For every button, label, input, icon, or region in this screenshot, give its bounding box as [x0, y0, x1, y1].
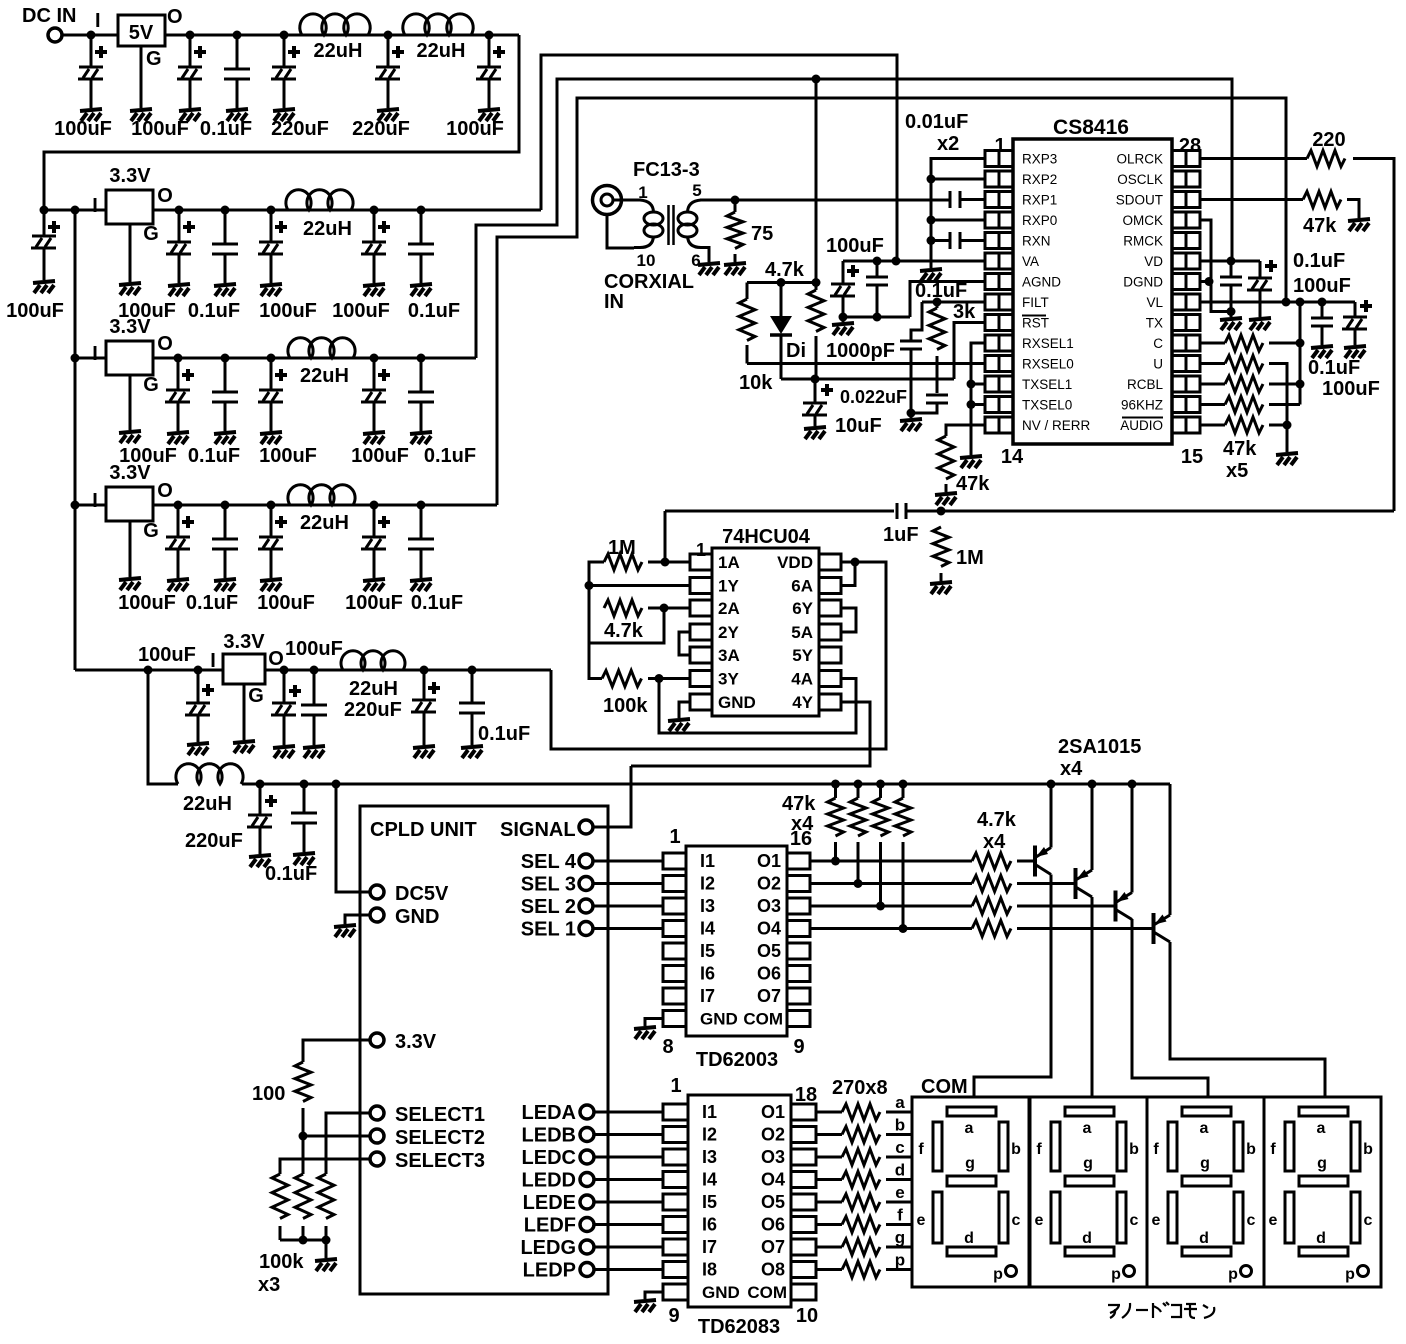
wire TXSEL0 stub: [971, 403, 985, 406]
wire DGND stub: [1200, 280, 1209, 283]
coaxial jack J1: [593, 186, 622, 215]
capacitor C37 0.022uF: [936, 356, 939, 393]
7-segment display DS1 body: [912, 1097, 1029, 1287]
ground (C18 100uF): [167, 579, 189, 591]
pin I1 of TD62003: [663, 853, 686, 869]
resistor 47k-2: [850, 798, 866, 836]
node: [1296, 380, 1305, 389]
segment a: [1182, 1107, 1231, 1116]
segment d: [1299, 1247, 1348, 1256]
pin GND of 74HCU04: [690, 694, 712, 710]
pin I1 of TD62083: [663, 1104, 688, 1120]
node: [811, 375, 820, 384]
svg-text:100uF: 100uF: [259, 300, 317, 322]
svg-text:6: 6: [691, 251, 700, 270]
svg-text:f: f: [1270, 1141, 1276, 1158]
pin VL of CS8416: [1172, 294, 1186, 310]
svg-text:RXP1: RXP1: [1022, 193, 1057, 208]
ground lead of VR5: [243, 684, 246, 740]
svg-text:c: c: [1364, 1212, 1373, 1229]
ground (C21 100uF): [363, 579, 385, 591]
terminal SELECT2: [370, 1129, 384, 1143]
svg-text:COM: COM: [743, 1010, 783, 1029]
svg-text:100: 100: [252, 1083, 285, 1105]
node at 5V input: [87, 31, 96, 40]
node: [71, 354, 80, 363]
wire NV/RERR to 47k: [946, 425, 985, 436]
svg-text:0.022uF: 0.022uF: [840, 387, 907, 407]
diode Di: [780, 283, 783, 317]
wire 3.3V#4 input rail: [75, 669, 223, 672]
decimal point circle: [1006, 1266, 1017, 1277]
IC U2 74HCU04 body: [712, 548, 819, 716]
svg-text:0.1uF: 0.1uF: [188, 445, 240, 467]
segment f: [1051, 1122, 1060, 1171]
ground (RX bus): [920, 269, 942, 281]
svg-text:22uH: 22uH: [349, 678, 398, 700]
svg-text:47k: 47k: [1303, 215, 1337, 237]
wire SELECT3 to 100k: [280, 1159, 370, 1174]
resistor R 3k: [936, 302, 939, 308]
svg-text:100uF: 100uF: [1293, 275, 1351, 297]
pin OLRCK of CS8416: [1172, 151, 1186, 167]
wire rail to CPLD DC5V pin: [336, 784, 369, 892]
svg-text:5A: 5A: [791, 623, 813, 642]
svg-text:0.1uF: 0.1uF: [1293, 250, 1345, 272]
overline for AUDIO: [1122, 417, 1163, 419]
wire base of Q1: [1017, 860, 1034, 863]
node: [420, 666, 429, 675]
resistor R 1M pulldown: [933, 527, 949, 566]
pin I7 of TD62003: [663, 988, 686, 1004]
svg-text:d: d: [964, 1230, 974, 1247]
pin O3 of TD62003: [787, 898, 810, 914]
capacitor C39 100uF (VD electrolytic): [1259, 261, 1262, 278]
svg-text:100uF: 100uF: [351, 445, 409, 467]
wire 5V rail feed down to 3.3V regulators: [44, 35, 519, 210]
svg-text:O: O: [157, 333, 173, 355]
capacitor C41 100uF (VL electrolytic): [1354, 302, 1357, 317]
svg-text:I6: I6: [702, 1215, 717, 1235]
node: [299, 1236, 308, 1245]
wire GND stub of 74HCU04: [679, 702, 690, 718]
ground (C26): [413, 746, 435, 758]
node: [876, 902, 885, 911]
wire TXSEL1 stub: [971, 383, 985, 386]
svg-text:SIGNAL: SIGNAL: [500, 819, 576, 841]
capacitor C9 0.1uF (ceramic): [224, 210, 227, 244]
ground (C10 100uF): [260, 284, 282, 296]
ground (C2 100uF): [179, 109, 201, 121]
svg-text:O8: O8: [761, 1260, 785, 1280]
svg-text:10k: 10k: [739, 372, 773, 394]
svg-text:d: d: [1082, 1230, 1092, 1247]
svg-text:I: I: [92, 343, 98, 365]
node: [221, 501, 230, 510]
terminal LEDB: [580, 1128, 594, 1142]
svg-text:O2: O2: [757, 874, 781, 894]
wire emitter rail corner to Q4: [1169, 784, 1172, 915]
wire Q1 collector to display1 COM: [974, 875, 1051, 1098]
pin O6 of TD62083: [791, 1217, 816, 1233]
ground (C20 100uF): [260, 579, 282, 591]
svg-text:x4: x4: [983, 831, 1006, 853]
IC U5 TD62083 body: [688, 1095, 791, 1307]
svg-text:0.1uF: 0.1uF: [188, 300, 240, 322]
pin 2A of 74HCU04: [690, 600, 712, 616]
svg-text:100k: 100k: [603, 695, 648, 717]
wire pull-down bus to ground: [1286, 425, 1289, 452]
wire 5V output rail: [165, 34, 519, 37]
terminal SEL 1: [579, 922, 593, 936]
capacitor C10 100uF (electrolytic): [270, 210, 273, 242]
svg-text:I6: I6: [700, 964, 715, 984]
pin RXP3 of CS8416: [985, 151, 999, 167]
resistor R 47k (SDOUT): [1303, 192, 1341, 208]
node: [186, 31, 195, 40]
terminal DC IN jack: [48, 28, 62, 42]
pin RXSEL1 of CS8416: [985, 335, 999, 351]
capacitor C29 0.1uF (ceramic): [303, 784, 306, 813]
segment e: [933, 1192, 942, 1243]
IC U4 TD62003 body: [686, 846, 787, 1036]
svg-text:I: I: [92, 195, 98, 217]
resistor R 47k pull (3): [879, 784, 882, 798]
segment c: [1117, 1192, 1126, 1243]
ground (TD62083): [634, 1300, 656, 1312]
node: [267, 206, 276, 215]
pin O7 of TD62003: [787, 988, 810, 1004]
wire VA decoupling: [843, 260, 985, 263]
node: [370, 501, 379, 510]
pin O6 of TD62003: [787, 966, 810, 982]
wire from DC input filter down to bottom rail: [148, 670, 178, 784]
wire 100k left leg: [589, 643, 602, 679]
segment f: [1168, 1122, 1177, 1171]
node: [310, 666, 319, 675]
svg-text:0.1uF: 0.1uF: [411, 592, 463, 614]
svg-text:g: g: [1317, 1155, 1327, 1172]
wire bottom supply rail: [242, 783, 1170, 786]
wire 3.3V#4 output rail: [265, 669, 551, 672]
svg-text:I8: I8: [702, 1260, 717, 1280]
svg-text:5V: 5V: [129, 22, 154, 44]
node: [899, 924, 908, 933]
node: [233, 31, 242, 40]
resistor R 3k: [929, 308, 945, 350]
wire Q3 collector to display3 COM: [1132, 919, 1208, 1097]
node: [417, 206, 426, 215]
svg-text:e: e: [895, 1183, 904, 1202]
svg-text:1000pF: 1000pF: [826, 340, 895, 362]
segment e: [1051, 1192, 1060, 1243]
resistor R 1M: [604, 554, 642, 570]
terminal SELECT1: [370, 1106, 384, 1120]
ground (C4 220uF): [273, 109, 295, 121]
pin 4A of 74HCU04: [819, 671, 841, 687]
wire 2Y-3A bracket: [679, 632, 690, 655]
svg-text:NV / RERR: NV / RERR: [1022, 418, 1091, 433]
ground (75): [724, 263, 746, 275]
svg-text:100uF: 100uF: [826, 235, 884, 257]
svg-text:x2: x2: [937, 133, 959, 155]
svg-text:RXN: RXN: [1022, 234, 1051, 249]
7-segment display DS4 body: [1264, 1097, 1381, 1287]
transistor Q3 2SA1015: [1114, 891, 1118, 922]
svg-text:1: 1: [670, 1075, 681, 1097]
node: [1296, 298, 1305, 307]
pin I2 of TD62003: [663, 876, 686, 892]
svg-text:4.7k: 4.7k: [765, 259, 805, 281]
svg-text:GND: GND: [718, 693, 756, 712]
pin TX of CS8416: [1172, 315, 1186, 331]
segment a: [1299, 1107, 1348, 1116]
svg-text:RXP0: RXP0: [1022, 213, 1057, 228]
svg-text:O3: O3: [757, 896, 781, 916]
svg-text:47k: 47k: [1223, 438, 1257, 460]
ground (C23): [187, 743, 209, 755]
svg-text:3.3V: 3.3V: [109, 462, 151, 484]
svg-text:O1: O1: [761, 1102, 785, 1122]
wire SELECT2: [303, 1135, 370, 1138]
node: [174, 501, 183, 510]
terminal SELECT3: [370, 1152, 384, 1166]
ground (C9 0.1uF): [214, 284, 236, 296]
svg-text:g: g: [965, 1155, 975, 1172]
wire 6Y-5A bracket: [841, 608, 856, 632]
wire 3Y: [648, 677, 690, 680]
resistor R 47k (AUDIO): [1225, 417, 1263, 433]
node: [221, 206, 230, 215]
node: [851, 558, 860, 567]
node: [655, 674, 664, 683]
node: [777, 278, 786, 287]
svg-text:100uF: 100uF: [54, 118, 112, 140]
svg-text:SDOUT: SDOUT: [1116, 193, 1163, 208]
node: [267, 354, 276, 363]
pin NV / RERR of CS8416: [985, 417, 999, 433]
segment b: [1117, 1122, 1126, 1171]
svg-text:I7: I7: [700, 986, 715, 1006]
pin O1 of TD62003: [787, 853, 810, 869]
svg-text:75: 75: [751, 223, 773, 245]
transformer T1 secondary winding: [688, 200, 702, 212]
pin O2 of TD62003: [787, 876, 810, 892]
svg-text:a: a: [965, 1120, 974, 1137]
node: [731, 196, 740, 205]
svg-text:O2: O2: [761, 1125, 785, 1145]
ground (C15 100uF): [260, 432, 282, 444]
ground lead of regulator VR4 3.3V: [129, 521, 132, 577]
node: [927, 216, 936, 225]
node: [194, 666, 203, 675]
wire 3.3V#2 output rail: [153, 357, 476, 360]
svg-text:LEDE: LEDE: [523, 1192, 576, 1214]
svg-text:O4: O4: [757, 919, 781, 939]
resistor R 270 (b): [842, 1127, 880, 1143]
resistor R 270 (d): [842, 1172, 880, 1188]
svg-text:AUDIO: AUDIO: [1120, 418, 1163, 433]
svg-text:O1: O1: [757, 851, 781, 871]
wire jack shield to primary pin 10: [607, 216, 634, 248]
segment c: [999, 1192, 1008, 1243]
wire O5 to segment e: [816, 1201, 842, 1204]
svg-text:LEDP: LEDP: [523, 1260, 576, 1282]
capacitor C6 100uF (electrolytic): [488, 35, 491, 67]
resistor R 100k: [602, 671, 641, 687]
node: [256, 780, 265, 789]
wire 3.3V#3 input: [75, 504, 106, 507]
svg-text:IN: IN: [604, 291, 624, 313]
svg-text:FILT: FILT: [1022, 295, 1049, 310]
svg-text:I2: I2: [700, 874, 715, 894]
decimal point circle: [1358, 1266, 1369, 1277]
terminal GND: [370, 908, 384, 922]
transformer T1 primary winding: [640, 200, 654, 212]
node: [907, 409, 916, 418]
svg-text:100uF: 100uF: [332, 300, 390, 322]
wire LEDB to TD62083 I2: [594, 1133, 663, 1136]
svg-text:TXSEL1: TXSEL1: [1022, 377, 1072, 392]
svg-text:96KHZ: 96KHZ: [1121, 398, 1163, 413]
transformer T1 core: [667, 205, 670, 245]
svg-text:22uH: 22uH: [300, 365, 349, 387]
pin DGND of CS8416: [1172, 274, 1186, 290]
pin I4 of TD62083: [663, 1172, 688, 1188]
wire O3 line: [810, 905, 972, 908]
wire LEDD to TD62083 I4: [594, 1178, 663, 1181]
pin 5Y of 74HCU04: [819, 647, 841, 663]
svg-text:22uH: 22uH: [314, 40, 363, 62]
svg-text:74HCU04: 74HCU04: [722, 526, 811, 548]
node: [1318, 298, 1327, 307]
pin GND of TD62083: [663, 1284, 688, 1300]
svg-text:I1: I1: [702, 1102, 717, 1122]
capacitor C8 100uF (electrolytic): [178, 210, 181, 242]
svg-text:TD62003: TD62003: [696, 1049, 778, 1071]
svg-text:3k: 3k: [953, 301, 976, 323]
svg-text:5Y: 5Y: [792, 646, 813, 665]
svg-text:a: a: [895, 1093, 905, 1112]
ground (TD62003): [634, 1027, 656, 1039]
capacitor C5 220uF (electrolytic): [387, 35, 390, 67]
ground lead of 5V regulator: [140, 46, 143, 108]
svg-text:f: f: [918, 1141, 924, 1158]
ground (C12 0.1uF): [410, 284, 432, 296]
ground (SDOUT 47k): [1348, 219, 1370, 231]
pin I5 of TD62083: [663, 1194, 688, 1210]
svg-text:4Y: 4Y: [792, 693, 813, 712]
wire resistor to SELECT2 node: [302, 1108, 305, 1174]
svg-text:I3: I3: [700, 896, 715, 916]
wire 1uF to OLRCK loop: [906, 510, 1394, 513]
resistor R 47k pull (2): [857, 784, 860, 798]
node: [174, 354, 183, 363]
svg-text:220uF: 220uF: [352, 118, 410, 140]
resistor R 47k (NV): [938, 436, 954, 479]
svg-text:g: g: [1083, 1155, 1093, 1172]
capacitor C36 1000pF: [900, 341, 922, 349]
svg-text:0.1uF: 0.1uF: [915, 280, 967, 302]
pin C of CS8416: [1172, 335, 1186, 351]
ground (C29): [293, 853, 315, 865]
segment f: [933, 1122, 942, 1171]
svg-text:I3: I3: [702, 1147, 717, 1167]
svg-text:6A: 6A: [791, 577, 813, 596]
svg-text:TXSEL0: TXSEL0: [1022, 398, 1072, 413]
pin O5 of TD62003: [787, 943, 810, 959]
pin OSCLK of CS8416: [1172, 171, 1186, 187]
svg-text:1M: 1M: [608, 537, 636, 559]
inductor L5 22uH: [288, 485, 355, 505]
svg-text:100uF: 100uF: [1322, 378, 1380, 400]
svg-text:b: b: [1363, 1141, 1373, 1158]
node: [873, 313, 882, 322]
pin RXN of CS8416: [985, 233, 999, 249]
svg-text:22uH: 22uH: [300, 512, 349, 534]
svg-text:10: 10: [796, 1305, 818, 1327]
resistor R 4.7k base (2): [972, 876, 1011, 892]
svg-text:3.3V: 3.3V: [109, 165, 151, 187]
node: [322, 1236, 331, 1245]
svg-text:2A: 2A: [718, 599, 740, 618]
wire 2A: [648, 607, 690, 610]
resistor R 4.7k base (4): [972, 921, 1011, 937]
wire C pull-up: [1200, 342, 1225, 345]
segment a: [1065, 1107, 1114, 1116]
svg-text:I4: I4: [700, 919, 715, 939]
segment g: [1299, 1176, 1348, 1186]
ground (10uF): [804, 427, 826, 439]
capacitor C16 100uF (electrolytic): [373, 358, 376, 390]
segment c: [1234, 1192, 1243, 1243]
svg-text:9: 9: [668, 1305, 679, 1327]
transistor Q1 2SA1015: [1033, 846, 1037, 877]
pin 1A of 74HCU04: [690, 554, 712, 570]
wire Q2 collector to display2 COM: [1091, 897, 1094, 1097]
resistor R 100k (1): [272, 1174, 288, 1219]
svg-text:2SA1015: 2SA1015: [1058, 736, 1141, 758]
inductor L2 22uH: [403, 14, 473, 35]
wire Q4 collector to display4 COM: [1170, 942, 1325, 1097]
svg-text:O: O: [167, 6, 183, 28]
node: [267, 501, 276, 510]
pin O3 of TD62083: [791, 1149, 816, 1165]
inductor L3 22uH: [286, 190, 353, 210]
capacitor C4 220uF (electrolytic): [283, 35, 286, 67]
pin TXSEL1 of CS8416: [985, 376, 999, 392]
svg-text:3A: 3A: [718, 646, 740, 665]
svg-text:4.7k: 4.7k: [604, 620, 644, 642]
svg-text:47k: 47k: [956, 473, 990, 495]
capacitor C3 0.1uF (ceramic): [236, 35, 239, 69]
wire FILT to 1000pF: [911, 302, 922, 341]
ground (C13 100uF): [167, 432, 189, 444]
svg-text:GND: GND: [395, 906, 439, 928]
pin O4 of TD62083: [791, 1172, 816, 1188]
wire VA cap bottoms to AGND: [843, 316, 910, 319]
svg-text:Di: Di: [786, 340, 806, 362]
svg-text:SEL 3: SEL 3: [521, 874, 576, 896]
svg-text:GND: GND: [700, 1010, 738, 1029]
node: [71, 501, 80, 510]
svg-text:3.3V: 3.3V: [223, 631, 265, 653]
wire 3.3V#4 output to 74HCU04 VDD: [551, 562, 886, 749]
node: [812, 278, 821, 287]
svg-text:100uF: 100uF: [285, 638, 343, 660]
wire GND to ground: [345, 915, 370, 924]
pin 3Y of 74HCU04: [690, 671, 712, 687]
